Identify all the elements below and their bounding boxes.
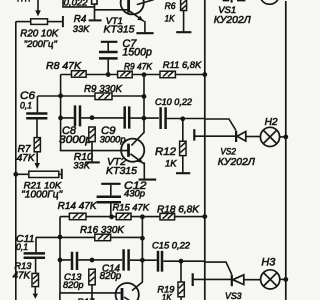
junction C10 / R12	[180, 116, 185, 121]
junction R21 / left rail	[13, 172, 18, 177]
wire channel2 bridge line	[38, 95, 144, 97]
wire channel3 C-line	[60, 260, 232, 275]
resistor R15	[116, 213, 131, 220]
wire capacitor 0,022 lead	[63, 0, 95, 7]
terminal bar VT1 emitter	[136, 32, 153, 34]
wire VS2 anode to H2	[246, 136, 261, 138]
svg-text:KT315: KT315	[104, 23, 135, 35]
svg-text:H2: H2	[265, 117, 278, 128]
svg-text:R6: R6	[165, 1, 176, 11]
resistor R11	[160, 71, 175, 78]
capacitor C6	[36, 96, 38, 112]
svg-text:3000p: 3000p	[100, 134, 126, 144]
junction C-line / R10	[90, 115, 95, 120]
transistor VT3	[116, 283, 139, 300]
junction C-line / input column	[58, 116, 63, 121]
svg-text:R12: R12	[155, 146, 176, 158]
svg-text:R16 330K: R16 330K	[80, 225, 124, 236]
terminal bar VS3 cathode line	[192, 273, 194, 286]
svg-text:R9 330K: R9 330K	[84, 84, 122, 95]
svg-text:R11 6,8K: R11 6,8K	[163, 59, 202, 70]
wire channel3 top line	[60, 216, 205, 218]
svg-text:KT315: KT315	[106, 165, 137, 177]
junction C-line / feedback column	[142, 116, 147, 121]
resistor R17	[89, 269, 95, 285]
junction C7/R8	[106, 72, 111, 77]
junction bridge / input column ch3	[58, 235, 63, 240]
resistor R9 330K	[95, 93, 112, 100]
junction C15 / R19	[179, 259, 184, 264]
terminal bar node A	[89, 19, 102, 21]
lamp H3	[261, 270, 280, 289]
capacitor C10	[161, 107, 166, 129]
svg-text:КУ202Л: КУ202Л	[214, 15, 252, 26]
wire H3 to right bus	[280, 278, 286, 280]
svg-text:R8 47K: R8 47K	[46, 61, 82, 72]
capacitor C8	[75, 105, 80, 126]
wire VT1 emitter lead	[144, 21, 146, 32]
wire VT1 base	[95, 9, 129, 11]
wire channel3 bridge line	[36, 236, 142, 238]
svg-text:"1000Гц": "1000Гц"	[21, 190, 62, 201]
wire node A stem	[94, 4, 96, 20]
svg-text:47K: 47K	[17, 153, 36, 164]
svg-text:C15 0,22: C15 0,22	[152, 241, 191, 251]
junction C-line / input column ch3	[58, 258, 63, 263]
svg-text:1K: 1K	[162, 293, 173, 300]
resistor R12	[182, 119, 184, 141]
terminal bar VT2 emitter	[139, 179, 157, 181]
svg-text:R14 47K: R14 47K	[58, 201, 98, 212]
svg-text:VS3: VS3	[225, 291, 242, 300]
wire R12 lead	[182, 156, 184, 173]
wire R20 left to left rail	[16, 21, 31, 23]
thyristor VS3	[231, 275, 233, 286]
wire feedback column VT2	[131, 75, 144, 146]
junction C-line / feedback column ch3	[140, 258, 145, 263]
terminal bar VS2 cathode line	[193, 129, 195, 140]
svg-text:1500p: 1500p	[122, 47, 152, 59]
svg-text:R13: R13	[14, 261, 32, 271]
svg-text:47K: 47K	[13, 270, 31, 281]
terminal bar R21 right	[61, 169, 63, 179]
wire right vertical bus	[285, 1, 287, 300]
terminal bar R6	[176, 31, 191, 33]
resistor R9	[118, 71, 133, 78]
junction H3 / right bus	[283, 277, 288, 282]
resistor R16	[95, 234, 111, 241]
junction top line / feedback column ch3	[140, 214, 145, 219]
junction R11 / middle bus	[202, 72, 207, 77]
wire R7 arrow lead	[36, 152, 38, 164]
lamp H1 (cut)	[260, 0, 279, 4]
wire channel3 input column	[60, 217, 121, 300]
svg-text:R18 6,8K: R18 6,8K	[157, 204, 200, 215]
junction H2 / right bus	[283, 135, 288, 140]
potentiometer R20	[31, 19, 48, 25]
junction top line / feedback column	[142, 72, 147, 77]
terminal bar R20 right	[62, 16, 64, 27]
wire channel2 top line	[61, 74, 205, 76]
resistor R8	[72, 71, 87, 78]
resistor R14	[69, 213, 86, 220]
junction R18 / middle bus	[202, 214, 207, 219]
wire VS3 anode to H3	[244, 279, 261, 281]
thyristor VS1 remnant marks	[231, 0, 233, 3]
capacitor C11	[35, 237, 37, 252]
svg-text:R9 47K: R9 47K	[124, 61, 153, 71]
wire VS3 cathode line	[193, 278, 231, 280]
wire VS2 cathode line	[194, 135, 235, 137]
wiper arrow R13	[33, 294, 38, 299]
wire R10 lead	[91, 142, 93, 162]
capacitor C12	[101, 183, 120, 185]
capacitor C9	[125, 106, 130, 128]
junction C12 / top line	[109, 214, 114, 219]
svg-text:820p: 820p	[100, 271, 122, 282]
junction C-line / R17	[90, 258, 95, 263]
svg-text:H3: H3	[261, 257, 275, 269]
svg-text:0,1: 0,1	[20, 100, 32, 110]
resistor R10	[89, 127, 95, 142]
wire middle vertical bus	[204, 0, 206, 300]
wire VT2 emitter lead	[143, 162, 145, 178]
svg-text:820p: 820p	[63, 280, 84, 290]
svg-text:"200Гц": "200Гц"	[24, 38, 58, 49]
svg-text:430p: 430p	[124, 187, 145, 198]
wire channel2 input column	[61, 75, 128, 151]
tick marks top left	[18, 0, 29, 2]
wire R17 lead	[91, 285, 93, 300]
transistor VT2	[121, 139, 144, 162]
lamp H2	[260, 127, 279, 146]
capacitor C13	[72, 252, 77, 270]
capacitor C14	[124, 249, 129, 270]
svg-text:3000p: 3000p	[59, 134, 92, 146]
svg-text:0,1: 0,1	[16, 242, 28, 252]
terminal bar R10	[86, 161, 100, 163]
capacitor C7	[101, 41, 118, 43]
resistor stub (cut) above node A	[92, 0, 97, 4]
wire channel2 C-line	[61, 118, 236, 130]
svg-text:33K: 33K	[73, 24, 90, 34]
svg-text:1K: 1K	[165, 13, 176, 23]
resistor R13	[32, 273, 39, 286]
svg-text:0,022: 0,022	[64, 0, 89, 8]
svg-text:33K: 33K	[73, 160, 90, 170]
wire R13 arrow lead	[34, 287, 36, 294]
resistor R7	[34, 138, 40, 152]
wiper arrow R20	[35, 10, 41, 16]
wire left rail	[15, 22, 17, 300]
wire R21 right lead	[59, 173, 62, 175]
potentiometer R21	[29, 171, 59, 177]
transistor VT1	[121, 0, 144, 14]
junction bridge / feedback column	[142, 94, 147, 99]
svg-text:C10 0,22: C10 0,22	[155, 97, 192, 107]
wire H2 to right bus	[280, 136, 286, 138]
thyristor VS2	[235, 131, 237, 142]
capacitor C15	[158, 251, 162, 272]
resistor R6	[181, 0, 187, 11]
svg-text:R15 47K: R15 47K	[113, 203, 150, 213]
wire R6 lead	[183, 11, 185, 32]
wiper arrow R7	[35, 163, 41, 169]
resistor R19	[180, 261, 182, 282]
wire feedback column VT3	[132, 217, 142, 291]
wire R20 right lead	[48, 21, 63, 23]
wire R21 left to rail	[16, 173, 29, 175]
junction bridge / feedback column ch3	[140, 236, 145, 241]
junction bridge / input column	[58, 93, 63, 98]
terminal bar R12	[176, 172, 190, 174]
wire R20 wiper lead	[37, 0, 39, 11]
resistor R18	[160, 213, 175, 220]
svg-text:VS2: VS2	[220, 146, 236, 156]
svg-text:КУ202Л: КУ202Л	[218, 157, 256, 168]
svg-text:1K: 1K	[165, 158, 177, 169]
